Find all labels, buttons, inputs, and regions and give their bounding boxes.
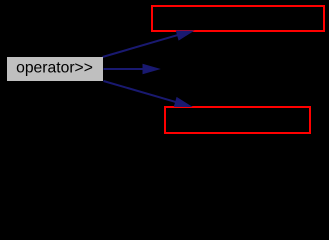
- node: truncated callee (top, red border): [152, 6, 324, 31]
- node: operator>> (current, grey): [7, 57, 103, 81]
- edge: operator>> to middle (invisible) node: [104, 68, 144, 70]
- node: truncated callee (bottom, red border): [165, 107, 310, 133]
- edge: operator>> to bottom node: [104, 81, 177, 102]
- svg-text:operator>>: operator>>: [16, 60, 93, 77]
- edge: operator>> to top node: [103, 35, 179, 57]
